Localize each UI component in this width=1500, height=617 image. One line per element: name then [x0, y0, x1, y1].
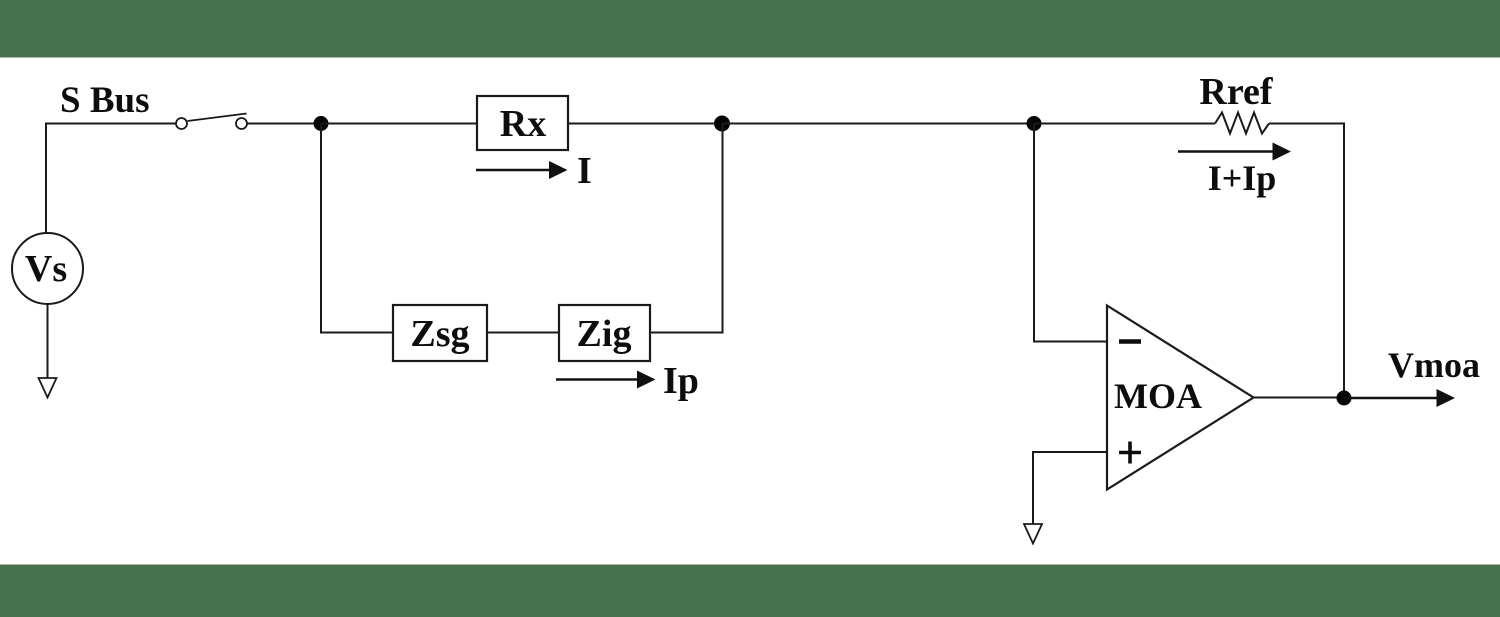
svg-text:Zig: Zig [577, 313, 632, 355]
current arrow I [476, 150, 592, 192]
wire (Zig up to node B) [650, 124, 723, 333]
current arrow Ip [556, 360, 699, 402]
svg-text:Zsg: Zsg [410, 313, 469, 355]
current arrow I+Ip [1178, 143, 1291, 199]
output arrow Vmoa [1344, 345, 1480, 407]
wire (right branch down) [1343, 123, 1345, 399]
wire (left branch down to Vs) [45, 123, 47, 234]
svg-text:I: I [577, 150, 592, 192]
ground (below Vs) [39, 378, 57, 398]
node D junction dot [1337, 391, 1352, 406]
wire (non-inverting input) [1033, 452, 1107, 524]
node A junction dot [314, 116, 329, 131]
wire [46, 123, 176, 125]
svg-text:Vmoa: Vmoa [1388, 345, 1480, 385]
svg-text:Rx: Rx [500, 103, 546, 145]
node C junction dot [1027, 116, 1042, 131]
wire (node A down to Zsg) [321, 124, 393, 333]
wire [1269, 123, 1345, 125]
pin + (non-inverting input) [1119, 442, 1141, 464]
wire (output) [1254, 397, 1345, 399]
wire [248, 123, 322, 125]
svg-text:MOA: MOA [1114, 376, 1202, 416]
wire [487, 332, 559, 334]
switch S [176, 114, 247, 130]
pin - (inverting input) [1119, 339, 1141, 344]
impedance Zsg [393, 305, 487, 361]
impedance Zig [559, 305, 650, 361]
resistor Rx [477, 96, 568, 150]
source Vs [12, 233, 83, 304]
wire [722, 123, 1034, 125]
svg-text:I+Ip: I+Ip [1208, 158, 1277, 198]
svg-text:Vs: Vs [25, 248, 67, 290]
node B junction dot [714, 116, 730, 132]
svg-text:Ip: Ip [663, 360, 699, 402]
wire [568, 123, 722, 125]
svg-text:S Bus: S Bus [60, 80, 149, 121]
ground (op-amp + input) [1024, 524, 1042, 544]
wire (node C down to inverting input) [1034, 124, 1107, 342]
wire [321, 123, 477, 125]
wire [1034, 123, 1215, 125]
svg-text:Rref: Rref [1199, 71, 1273, 113]
op-amp MOA [1107, 306, 1254, 490]
wire [47, 304, 49, 378]
